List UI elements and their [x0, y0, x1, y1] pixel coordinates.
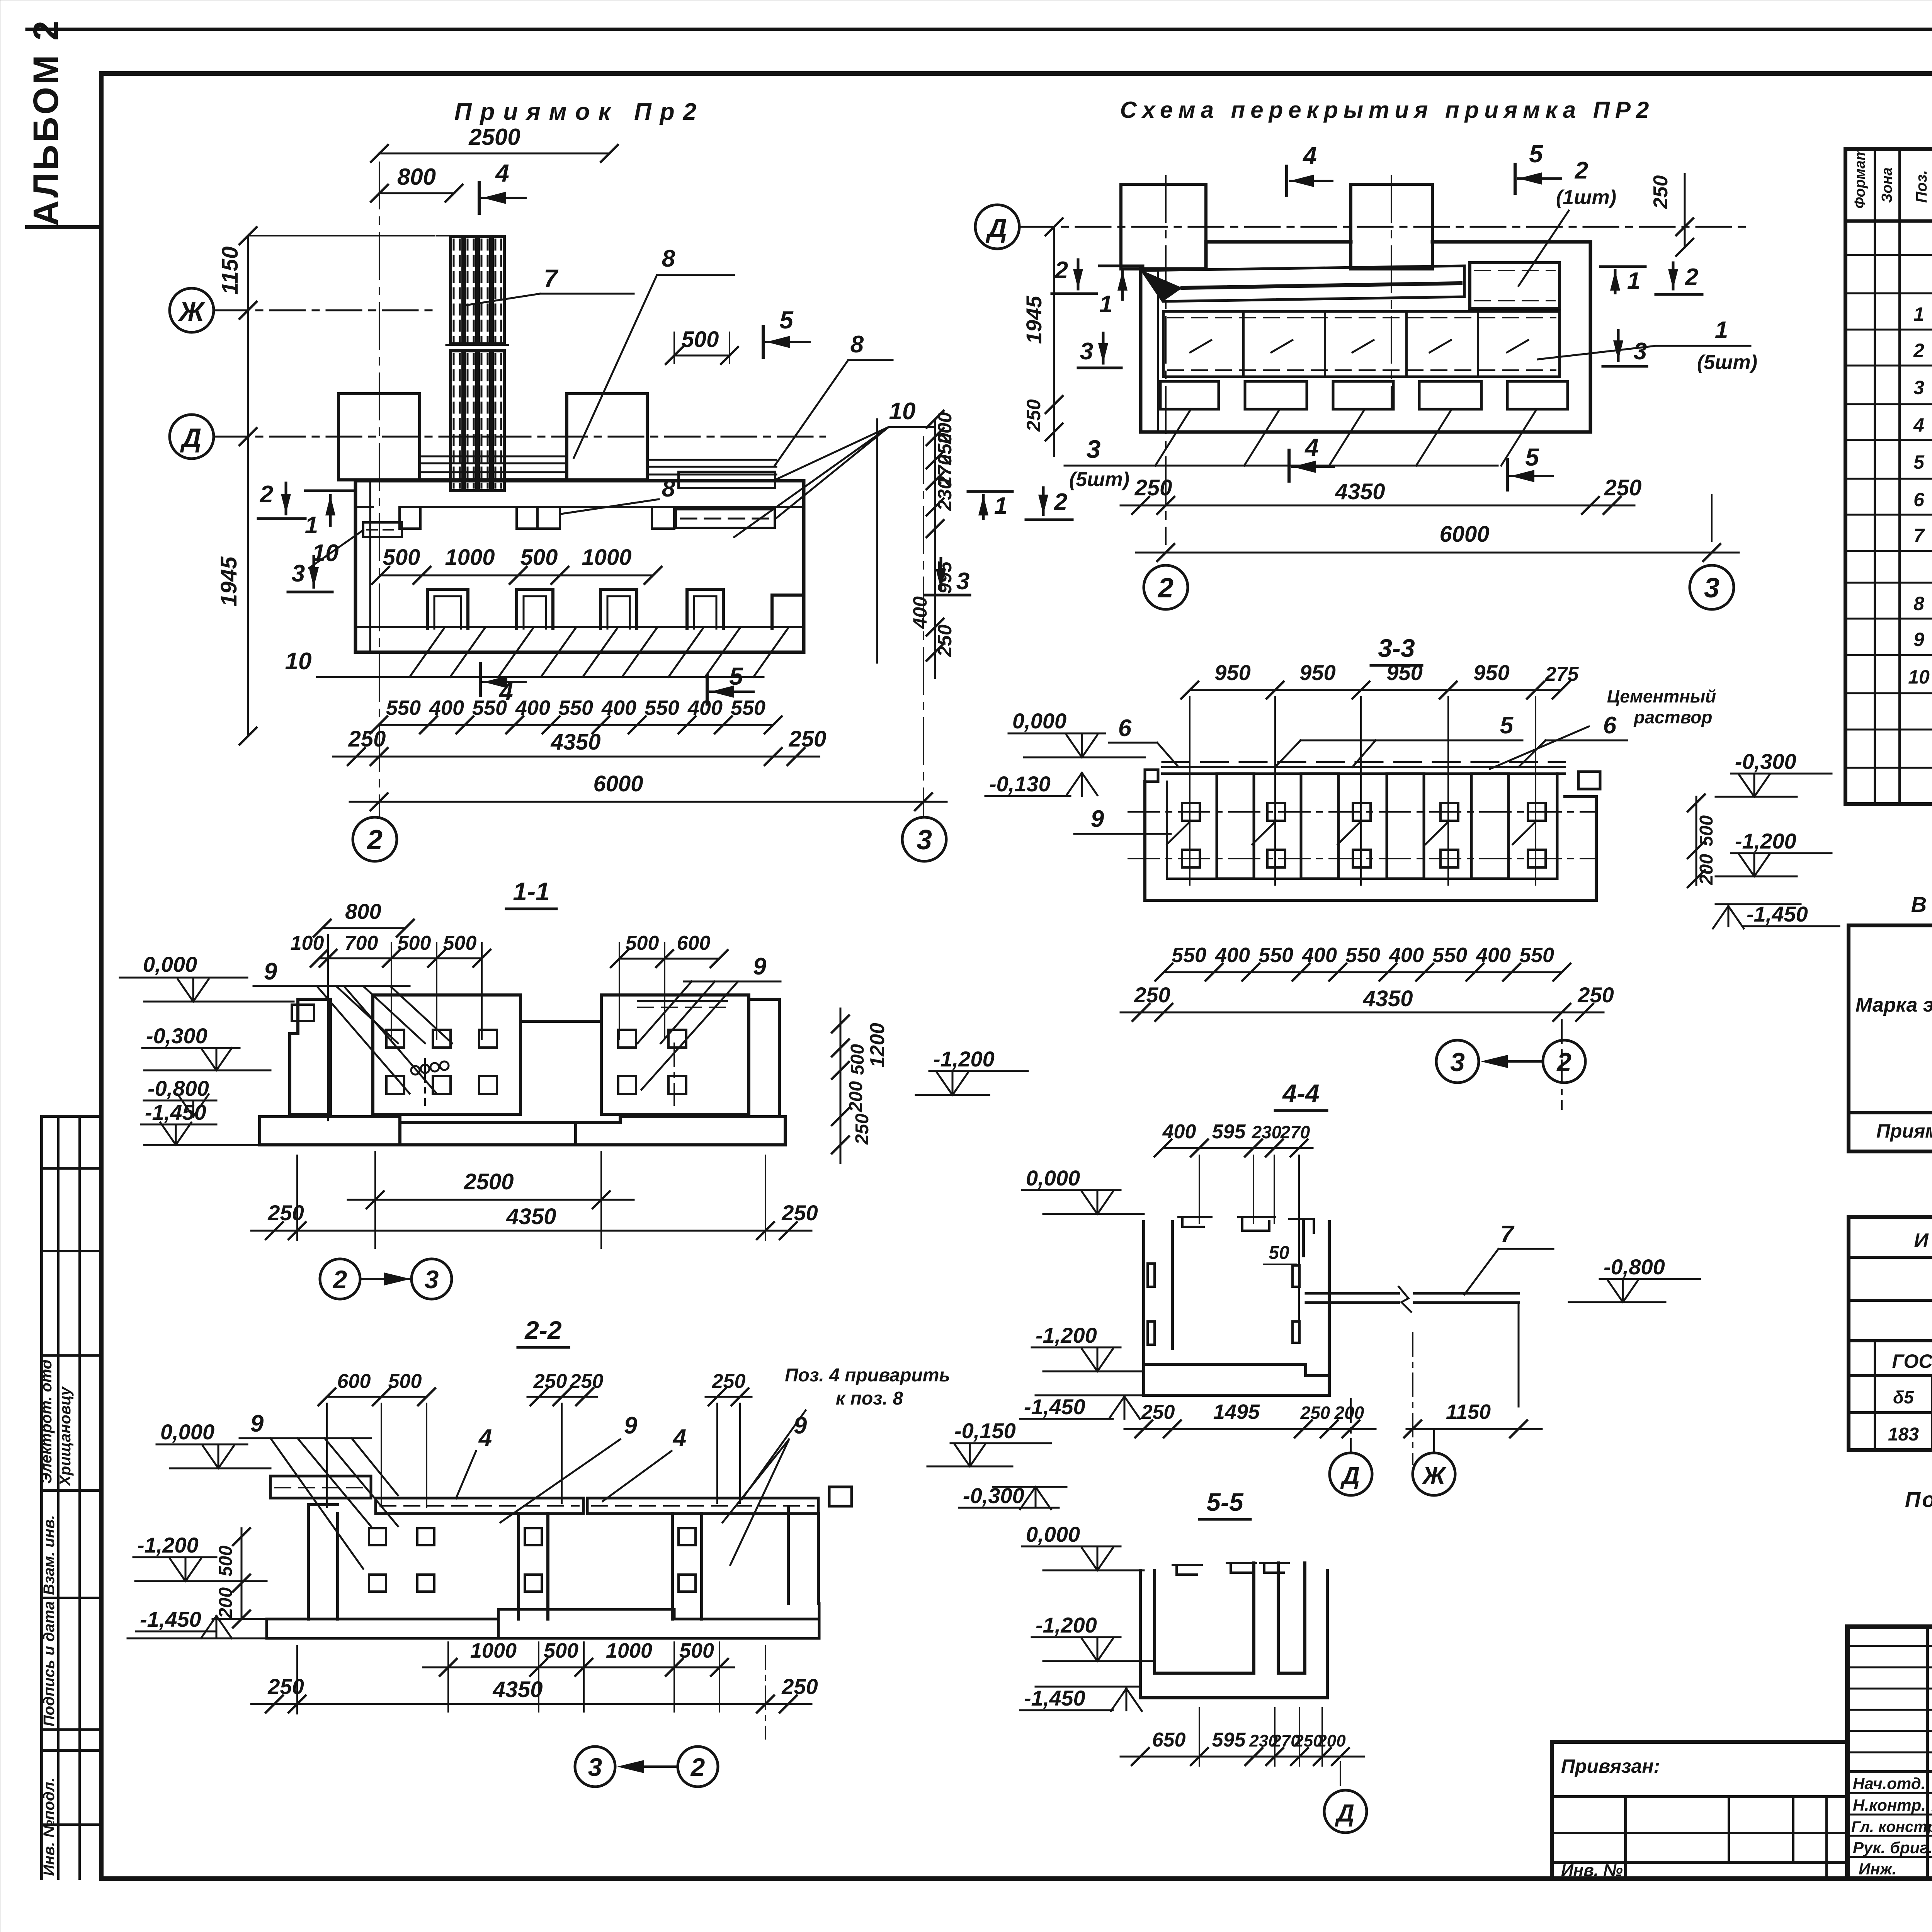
sec4-4 dim 1150: [1404, 1333, 1542, 1464]
svg-text:8: 8: [662, 475, 675, 502]
svg-text:2: 2: [1157, 573, 1173, 604]
svg-text:5: 5: [1500, 712, 1514, 739]
svg-text:Подпись и дата: Подпись и дата: [41, 1601, 58, 1726]
label 3 (5шт) bottom left with leaders: [1065, 410, 1536, 491]
teeth row schema: [1160, 381, 1568, 409]
svg-text:550: 550: [1172, 944, 1206, 967]
svg-text:-0,300: -0,300: [146, 1024, 207, 1048]
svg-text:250: 250: [1134, 983, 1170, 1007]
sec2-2 bottom dims 1000 500 1000 500: [423, 1639, 734, 1712]
dim row 550 400 ...: [370, 696, 782, 733]
schema marker 5 top: [1515, 140, 1561, 193]
sec3-3 level -1.200 right: [1716, 829, 1832, 876]
svg-text:Д: Д: [1335, 1799, 1354, 1827]
axis 3 vertical schema: [1711, 495, 1713, 544]
svg-text:200: 200: [216, 1587, 236, 1619]
svg-text:4: 4: [1302, 142, 1317, 170]
svg-text:550: 550: [1432, 944, 1467, 967]
svg-text:5: 5: [1525, 443, 1539, 471]
sec4-4 body: [1144, 1217, 1329, 1395]
svg-text:-0,130: -0,130: [989, 772, 1051, 796]
svg-text:250: 250: [348, 726, 386, 752]
svg-text:250: 250: [1650, 175, 1672, 209]
title 5-5: [1199, 1488, 1250, 1519]
svg-text:250: 250: [533, 1370, 567, 1393]
svg-text:Привязан:: Привязан:: [1561, 1755, 1660, 1777]
svg-text:6000: 6000: [1439, 522, 1489, 547]
svg-text:Инж.: Инж.: [1859, 1860, 1896, 1878]
sec1-1 right dims 1200 500 200 250: [832, 1009, 889, 1163]
note Позиции 5 и 6: [1905, 1487, 1932, 1512]
svg-text:0,000: 0,000: [1026, 1166, 1080, 1190]
sec1-1 label 9 left: [253, 958, 452, 1094]
svg-text:2-2: 2-2: [524, 1316, 562, 1344]
svg-text:400: 400: [1215, 944, 1250, 967]
note Поз.4 приварить к поз.8: [742, 1365, 950, 1499]
axis circle 2 plan: [353, 817, 397, 861]
svg-text:600: 600: [337, 1370, 371, 1393]
svg-text:4: 4: [1913, 414, 1924, 436]
axis circle 3 plan: [902, 817, 946, 861]
svg-text:500: 500: [682, 327, 719, 352]
specification header texts: [1852, 147, 1932, 209]
sec5-5 axis circle Д: [1324, 1762, 1367, 1833]
svg-text:1000: 1000: [606, 1639, 652, 1662]
svg-text:2: 2: [1685, 264, 1698, 291]
sec5-5 bottom dims 650 595 230 270 250 200: [1121, 1708, 1364, 1766]
svg-text:3: 3: [292, 560, 305, 587]
plan dim 800: [371, 164, 463, 202]
svg-text:Гл. констр.: Гл. констр.: [1851, 1818, 1932, 1835]
svg-text:7: 7: [1500, 1221, 1515, 1248]
svg-text:950: 950: [1214, 660, 1250, 685]
svg-text:400: 400: [515, 696, 550, 719]
svg-text:Хрищановцу: Хрищановцу: [57, 1386, 74, 1486]
svg-text:500: 500: [520, 545, 558, 570]
sec3-3 marker circles 3-2: [1436, 1040, 1585, 1083]
svg-text:4350: 4350: [492, 1677, 543, 1702]
svg-text:-1,450: -1,450: [145, 1100, 206, 1124]
svg-text:7: 7: [1913, 525, 1925, 546]
axis 3 vertical line: [923, 437, 924, 817]
svg-text:6000: 6000: [593, 771, 643, 796]
marker 2 down 1 up left: [258, 481, 352, 539]
svg-text:995: 995: [934, 561, 956, 594]
svg-text:2: 2: [1913, 340, 1924, 361]
svg-text:4-4: 4-4: [1282, 1079, 1319, 1107]
svg-text:0,000: 0,000: [1012, 709, 1066, 733]
svg-text:4350: 4350: [1362, 986, 1413, 1011]
sec4-4 level -1.200: [1032, 1323, 1144, 1371]
svg-text:500: 500: [679, 1639, 714, 1662]
svg-text:8: 8: [1913, 593, 1924, 614]
svg-text:250: 250: [712, 1370, 746, 1393]
title Ведомость расхода стали: [1911, 892, 1932, 917]
svg-text:7: 7: [544, 264, 559, 292]
sec4-4 level -1.450: [1020, 1395, 1144, 1419]
svg-text:500: 500: [626, 932, 659, 954]
specification rows: [1908, 230, 1932, 800]
svg-text:400: 400: [1476, 944, 1511, 967]
svg-text:-1,200: -1,200: [933, 1047, 995, 1071]
svg-text:275: 275: [1545, 663, 1579, 685]
svg-text:3: 3: [425, 1265, 439, 1294]
sec3-3 bottom dims 550 400 row: [1155, 944, 1570, 981]
svg-text:2: 2: [260, 481, 273, 508]
sec3-3 dim 250 4350 250: [1121, 983, 1614, 1109]
sec3-3 level 0.000: [1009, 709, 1145, 757]
pilasters on inner wall: [400, 507, 674, 529]
svg-text:250: 250: [1023, 399, 1044, 432]
svg-text:500: 500: [216, 1546, 236, 1577]
svg-text:4350: 4350: [550, 730, 600, 755]
svg-text:550: 550: [558, 696, 593, 719]
sec3-3 label 9: [1074, 806, 1171, 834]
beam plates poz.8 top: [420, 456, 776, 479]
svg-text:0,000: 0,000: [1026, 1522, 1080, 1546]
sec1-1 dims 500 600 right: [611, 932, 728, 1039]
embedded plate MN553 dashed strips right: [676, 472, 775, 528]
svg-text:1: 1: [1099, 291, 1112, 318]
svg-text:-0,300: -0,300: [1735, 749, 1796, 774]
svg-text:400: 400: [1389, 944, 1424, 967]
svg-text:2: 2: [1054, 257, 1068, 284]
axis circle Д schema: [975, 205, 1747, 249]
svg-text:500: 500: [383, 545, 420, 570]
sec2-2 dim 250 4350 250 bottom: [251, 1646, 818, 1739]
svg-text:250: 250: [852, 1114, 872, 1145]
svg-text:9: 9: [250, 1410, 264, 1437]
svg-text:3: 3: [1634, 338, 1647, 365]
sec5-5 level 0.000: [1022, 1522, 1144, 1570]
steel table texts: [1855, 936, 1932, 1142]
sec4-4 level 0.000: [1022, 1166, 1144, 1214]
svg-text:5-5: 5-5: [1206, 1488, 1244, 1516]
label 7 with leader: [466, 264, 634, 305]
signature table: [1847, 1627, 1932, 1879]
svg-text:100: 100: [291, 932, 324, 954]
svg-text:250: 250: [1141, 1401, 1175, 1423]
sec3-3 level -1.450 right: [1713, 902, 1839, 929]
sec2-2 level -1.200 left: [133, 1533, 267, 1581]
svg-text:2: 2: [690, 1753, 705, 1781]
sec1-1 dims 100 700 500 500: [291, 932, 490, 1121]
svg-text:183: 183: [1888, 1424, 1919, 1445]
svg-text:3: 3: [1450, 1048, 1465, 1077]
svg-text:230: 230: [934, 478, 956, 511]
axis circle 2 schema: [1144, 565, 1188, 609]
marker 5 bottom: [707, 662, 753, 704]
sec1-1 level -0.300: [142, 1024, 270, 1070]
svg-text:550: 550: [645, 696, 679, 719]
svg-text:8: 8: [850, 331, 864, 358]
svg-text:50: 50: [1269, 1243, 1289, 1263]
schema left dims 1945 250: [1022, 218, 1063, 456]
svg-text:10: 10: [285, 648, 312, 675]
svg-text:9: 9: [264, 958, 277, 985]
svg-text:400: 400: [1162, 1121, 1196, 1143]
svg-text:4: 4: [495, 159, 509, 187]
svg-text:Приямок ПР2: Приямок ПР2: [1876, 1120, 1932, 1142]
sec2-2 level -0.150 right: [927, 1418, 1051, 1466]
svg-text:400: 400: [687, 696, 723, 719]
svg-text:1945: 1945: [216, 556, 241, 607]
sec4-4 axis circles Д Ж: [1330, 1399, 1372, 1495]
sec1-1 level 0.000: [120, 952, 294, 1002]
svg-text:-1,200: -1,200: [1036, 1323, 1097, 1347]
schema dim 6000: [1136, 522, 1739, 561]
title Приямок Пр2: [454, 99, 705, 125]
teeth anchor channels bottom row: [427, 589, 802, 629]
svg-text:200: 200: [1696, 854, 1717, 885]
sec4-4 top dims 400 595 230 270: [1155, 1121, 1313, 1333]
plan column block right: [567, 394, 647, 480]
svg-text:2: 2: [332, 1265, 347, 1294]
shield row Щ3 panels: [1163, 311, 1560, 377]
svg-text:550: 550: [1259, 944, 1293, 967]
sec3-3 level -0.300 right: [1716, 749, 1832, 797]
svg-text:9: 9: [753, 953, 767, 980]
svg-text:6: 6: [1603, 712, 1617, 739]
schema marker 4 bottom: [1289, 434, 1334, 481]
svg-text:250: 250: [1604, 475, 1642, 500]
svg-text:Ж: Ж: [1421, 1462, 1447, 1490]
svg-text:1-1: 1-1: [513, 877, 549, 906]
title 3-3: [1371, 634, 1422, 665]
marker 4 bottom: [480, 664, 526, 706]
dim 500 + marker 5 top right: [666, 306, 810, 364]
svg-text:к поз. 8: к поз. 8: [836, 1388, 903, 1409]
sec4-4 bottom dims 250 1495 250 200: [1124, 1400, 1376, 1437]
svg-text:250: 250: [781, 1201, 818, 1225]
beam BM2 wedge: [1142, 266, 1464, 301]
svg-text:1495: 1495: [1213, 1400, 1260, 1423]
svg-text:5: 5: [1529, 140, 1543, 168]
marker 1 up 2 down right: [968, 488, 1072, 520]
svg-text:550: 550: [386, 696, 421, 719]
svg-text:10: 10: [1908, 666, 1930, 688]
vertical dim 1150 / 1945: [216, 227, 435, 745]
svg-text:4: 4: [672, 1425, 686, 1451]
sec3-3 body: [1128, 762, 1600, 900]
svg-text:Электрот. отд: Электрот. отд: [38, 1359, 55, 1484]
svg-text:2: 2: [366, 825, 383, 855]
label 1 (5шт) right: [1538, 317, 1757, 374]
sec4-4 pipe poz.7: [1306, 1287, 1519, 1406]
sec5-5 body: [1140, 1563, 1327, 1698]
svg-text:250: 250: [934, 624, 956, 657]
svg-text:Д: Д: [180, 423, 202, 453]
svg-text:1150: 1150: [218, 247, 243, 295]
svg-text:1: 1: [305, 512, 318, 539]
svg-text:200: 200: [1334, 1403, 1364, 1423]
svg-text:Н.контр.: Н.контр.: [1853, 1796, 1926, 1814]
svg-text:-0,150: -0,150: [954, 1418, 1016, 1443]
svg-text:-1,450: -1,450: [1024, 1395, 1085, 1419]
svg-text:4: 4: [478, 1425, 492, 1451]
title Схема перекрытия приямка ПР2: [1120, 97, 1655, 123]
sec4-4 level -0.800: [1569, 1255, 1700, 1302]
svg-text:-0,800: -0,800: [148, 1076, 209, 1100]
sec2-2 labels 9 and 4: [240, 1410, 807, 1569]
svg-text:4: 4: [1304, 434, 1319, 461]
sec1-1 dim 800: [314, 899, 414, 937]
svg-text:Взам. инв.: Взам. инв.: [41, 1515, 58, 1595]
schema column block right: [1351, 184, 1432, 269]
svg-text:Инв. №: Инв. №: [1561, 1861, 1623, 1880]
svg-text:3: 3: [1704, 573, 1719, 604]
svg-text:Марка элемента: Марка элемента: [1855, 994, 1932, 1016]
svg-text:500: 500: [544, 1639, 578, 1662]
sec1-1 body: [260, 995, 785, 1145]
marker 3 down right: [925, 558, 970, 595]
svg-text:2500: 2500: [468, 124, 520, 150]
svg-text:500: 500: [1696, 815, 1717, 846]
svg-text:3: 3: [1913, 377, 1924, 398]
schema marker 3 left: [1078, 333, 1121, 368]
svg-text:Рук. бриг.: Рук. бриг.: [1853, 1838, 1932, 1857]
svg-text:500: 500: [388, 1370, 422, 1393]
svg-text:Приямок Пр2: Приямок Пр2: [454, 99, 705, 125]
svg-text:Д: Д: [986, 213, 1007, 243]
svg-text:950: 950: [1299, 660, 1335, 685]
schema marker 4 top: [1287, 142, 1332, 195]
svg-text:9: 9: [794, 1412, 807, 1439]
svg-text:270: 270: [1280, 1122, 1310, 1142]
title 2-2: [518, 1316, 569, 1347]
svg-text:Инв. №подл.: Инв. №подл.: [41, 1777, 58, 1876]
title block outline: [1847, 1627, 1932, 1879]
axis 2 vertical line: [379, 162, 380, 817]
title 1-1: [506, 877, 556, 909]
svg-text:Зона: Зона: [1879, 167, 1895, 203]
left stamp strip: [38, 1116, 101, 1879]
steel table grid: [1849, 925, 1932, 1151]
svg-text:250: 250: [267, 1201, 304, 1225]
ALBOM 2 vertical label: [26, 19, 100, 227]
svg-text:400: 400: [909, 596, 931, 629]
svg-text:550: 550: [472, 696, 507, 719]
sec2-2 body: [213, 1476, 852, 1638]
marker 3 down left: [288, 556, 332, 592]
sec1-1 level -0.800: [144, 1076, 216, 1117]
svg-text:5: 5: [729, 662, 743, 690]
svg-text:9: 9: [1091, 806, 1104, 832]
svg-text:-0,800: -0,800: [1604, 1255, 1665, 1279]
svg-text:(5шт): (5шт): [1069, 468, 1129, 491]
continuation table grid: [1849, 1217, 1932, 1450]
svg-text:500: 500: [443, 932, 477, 954]
svg-text:Цементный: Цементный: [1607, 686, 1716, 706]
svg-text:250: 250: [1577, 983, 1614, 1007]
svg-text:1: 1: [1627, 268, 1640, 294]
svg-text:550: 550: [1519, 944, 1554, 967]
panel 2 (1шт) dashed right: [1470, 263, 1560, 308]
svg-text:Изделия закладные: Изделия закладные: [1914, 1230, 1932, 1252]
label 10 top right with leaders: [734, 398, 935, 537]
sec5-5 level -1.450: [1020, 1686, 1142, 1711]
svg-text:1: 1: [1913, 303, 1924, 325]
axis 2 vertical schema: [1166, 176, 1391, 544]
sec1-1 label 9 right: [638, 953, 781, 1090]
svg-text:595: 595: [1212, 1121, 1246, 1143]
plan inner dim 500 1000 500 1000: [372, 545, 662, 584]
svg-text:200: 200: [846, 1081, 866, 1112]
svg-text:950: 950: [1473, 660, 1509, 685]
schema dim 250 4350 250: [1121, 475, 1641, 514]
svg-text:Ведомость расхода стали на: Ведомость расхода стали на элемент, кг: [1911, 892, 1932, 917]
svg-text:400: 400: [601, 696, 636, 719]
sec2-2 dims 250 250 mid: [527, 1370, 603, 1503]
svg-text:5: 5: [779, 306, 794, 334]
dim row 6000: [350, 771, 947, 810]
svg-text:9: 9: [1913, 629, 1924, 650]
axis circle 3 schema: [1690, 565, 1734, 609]
bottom label 10 with leader row: [285, 628, 788, 677]
svg-text:Ж: Ж: [178, 296, 206, 327]
sec2-2 dim 250 right: [706, 1370, 752, 1503]
svg-text:800: 800: [345, 899, 381, 923]
schema outline: [1141, 242, 1590, 432]
section marker 4 top: [479, 159, 526, 213]
sec3-3 right rotated dims 500 200: [1688, 794, 1717, 887]
svg-text:250: 250: [781, 1674, 818, 1699]
svg-text:3: 3: [588, 1753, 602, 1781]
schema marker 5 bottom: [1507, 443, 1553, 490]
plan dim 2500: [371, 124, 618, 162]
pit plan outline: [355, 481, 804, 652]
svg-text:250: 250: [570, 1370, 604, 1393]
schema marker 2-1 left: [1052, 257, 1143, 318]
svg-text:3-3: 3-3: [1378, 634, 1415, 662]
axis circle Д: [170, 415, 825, 459]
svg-text:2: 2: [1556, 1048, 1571, 1077]
svg-text:4350: 4350: [506, 1204, 556, 1229]
svg-text:200: 200: [1317, 1731, 1346, 1750]
svg-text:6: 6: [1118, 715, 1132, 742]
svg-text:595: 595: [1212, 1729, 1246, 1751]
title 4-4: [1275, 1079, 1327, 1111]
sec4-4 dim 50: [1264, 1243, 1296, 1264]
svg-text:раствор: раствор: [1633, 707, 1712, 727]
svg-text:2: 2: [1575, 157, 1588, 184]
svg-text:600: 600: [677, 932, 711, 954]
note Цементный раствор: [1490, 686, 1716, 769]
svg-text:400: 400: [429, 696, 464, 719]
svg-text:800: 800: [397, 164, 436, 190]
svg-text:400: 400: [1302, 944, 1337, 967]
svg-text:1000: 1000: [445, 545, 495, 570]
svg-text:3: 3: [917, 825, 932, 855]
svg-text:500: 500: [398, 932, 431, 954]
svg-text:-1,200: -1,200: [1036, 1613, 1097, 1637]
svg-text:500: 500: [847, 1044, 868, 1075]
svg-text:4350: 4350: [1335, 479, 1385, 504]
sec4-4 label 7: [1464, 1221, 1553, 1294]
sec1-1 dim 2500 bottom: [348, 1151, 634, 1248]
axis circle Ж: [170, 288, 437, 332]
svg-text:1: 1: [1715, 317, 1728, 344]
svg-text:10: 10: [889, 398, 916, 425]
svg-text:Поз. 4 приварить: Поз. 4 приварить: [785, 1365, 950, 1386]
svg-text:0,000: 0,000: [160, 1420, 214, 1444]
svg-text:Поз.: Поз.: [1913, 170, 1930, 203]
rotated dim 250 top right: [1650, 174, 1693, 256]
continuation table texts: [1888, 1230, 1932, 1445]
svg-text:3: 3: [1080, 338, 1093, 365]
svg-text:550: 550: [1345, 944, 1380, 967]
svg-text:950: 950: [1386, 660, 1422, 685]
